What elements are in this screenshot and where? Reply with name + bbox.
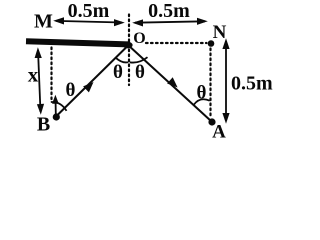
svg-text:θ: θ <box>66 80 76 101</box>
svg-text:B: B <box>37 114 50 136</box>
svg-text:0.5m: 0.5m <box>148 0 190 22</box>
node O vertex dot <box>123 42 133 49</box>
dimension 0.5m left: line and arrows <box>53 17 125 26</box>
dimension 0.5m right: line and arrows <box>132 18 208 27</box>
svg-text:0.5m: 0.5m <box>231 73 273 95</box>
dimension 0.5m vertical right: line and arrows <box>222 38 229 123</box>
node A dot <box>208 118 215 125</box>
svg-text:M: M <box>34 11 53 33</box>
angle arc at A <box>194 99 210 104</box>
wire: horizontal dotted O..N <box>146 42 207 44</box>
normal arrow at B <box>52 95 59 114</box>
wire: vertical dotted N..A <box>209 49 211 119</box>
svg-text:A: A <box>212 121 226 142</box>
svg-text:θ: θ <box>135 62 145 83</box>
svg-text:O: O <box>133 30 145 47</box>
ray B to O with arrowhead <box>57 46 127 115</box>
angle arc right under O <box>130 57 148 62</box>
node O normal: center vertical dotted line <box>128 15 130 86</box>
svg-text:x: x <box>28 62 39 86</box>
svg-text:N: N <box>213 22 227 43</box>
svg-text:θ: θ <box>113 62 123 83</box>
dimension x: vertical double arrow under bar left <box>35 47 45 114</box>
node N dot <box>208 40 215 47</box>
wire: left dotted vertical from bar to B <box>50 48 52 100</box>
angle arc at B <box>51 102 67 111</box>
angle arc left under O <box>116 58 129 63</box>
ray O to A with arrowhead <box>130 47 211 121</box>
svg-text:0.5m: 0.5m <box>68 0 110 22</box>
wire: plane mirror bar M..O <box>26 41 130 44</box>
node B dot <box>53 113 60 120</box>
svg-text:θ: θ <box>197 83 207 104</box>
